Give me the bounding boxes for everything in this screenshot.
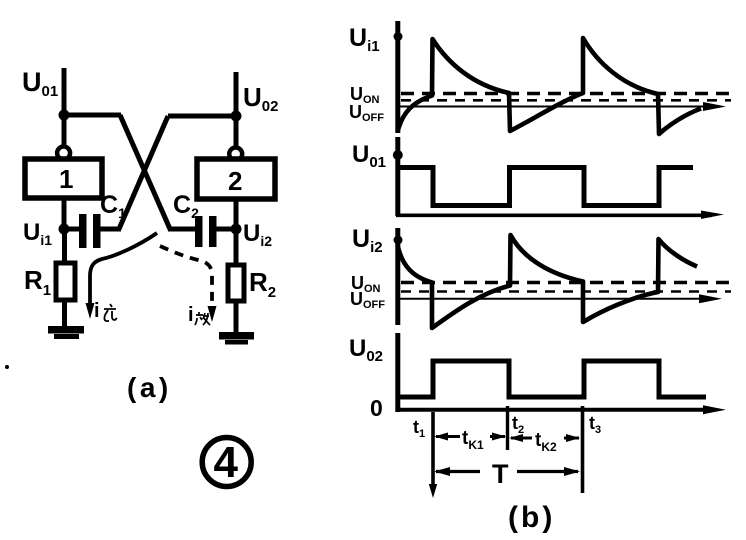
dimension tk2 label [535,430,557,454]
svg-text:R1: R1 [24,265,51,299]
resistor R1 [56,263,75,300]
panel Ui2 waveform [398,235,698,328]
discharging current dashed arrow i_fang [160,246,217,322]
svg-text:i: i [188,304,194,326]
panel Ui1 time axis [396,102,726,111]
wire diagonal end to C1 right plate [100,227,121,232]
panel Ui1 U_ON label [350,84,380,106]
node Ui1 junction [59,224,70,235]
svg-text:Ui2: Ui2 [352,225,383,256]
time marker t1 line with arrow [429,412,437,498]
panel Ui2 U_ON label [351,273,381,295]
panel Ui2 label [352,225,383,256]
ground 1 [48,326,84,339]
svg-text:(a): (a) [127,372,172,403]
node U01 label [22,67,58,100]
svg-text:U01: U01 [352,141,386,171]
wire Ui2 down to R2 [234,229,239,266]
panel Ui1 U_OFF dashed line [401,99,731,102]
wire gate2 output to Ui2 [234,199,239,231]
dimension T left arrow [434,467,480,476]
time marker t3 label [589,413,601,436]
panel Ui1 label [349,24,380,55]
svg-text:U02: U02 [243,82,278,115]
panel Ui1 U_OFF label [349,102,384,124]
wire cross diagonal from U02 to C1 [119,116,168,229]
svg-text:4: 4 [214,438,239,487]
capacitor C2 label [173,191,199,221]
panel Ui1 waveform [398,38,701,134]
time marker t2 label [512,413,524,436]
time marker t2 tick [506,406,509,450]
svg-text:t3: t3 [589,413,601,436]
wire R1 to ground [62,300,67,328]
charging current label [94,300,117,322]
svg-text:C1: C1 [100,191,126,221]
svg-text:t1: t1 [413,417,425,440]
svg-text:U01: U01 [22,67,58,100]
panel U01 time axis [396,211,724,220]
gate 2 inverter bubble [229,148,242,161]
wire U02 vertical [234,72,239,148]
svg-text:Ui1: Ui1 [349,24,380,55]
gate 2 box [197,159,275,199]
gate 1 inverter bubble [57,147,70,160]
svg-text:2: 2 [228,166,242,196]
resistor R2 [228,265,244,301]
dimension tk2 right arrow [564,434,580,442]
resistor R2 label [249,267,276,301]
panel U01 axis vertical [395,137,400,216]
ground 2 [219,332,254,345]
gate 2 label [228,166,242,196]
panel U02 time axis [396,405,726,414]
wire cross diagonal from U01 to C2 [120,115,170,229]
panel U02 square wave [397,361,706,397]
panel Ui2 U_OFF label [350,289,385,311]
caption (a) [127,372,172,403]
panel Ui2 U_ON dashed line [401,281,731,285]
panel Ui1 initial level dot [394,32,403,41]
svg-text:tK2: tK2 [535,430,557,454]
svg-text:tK1: tK1 [462,428,484,452]
node Ui1 label [23,219,52,248]
wire U01 vertical [62,68,67,147]
panel U01 label [352,141,386,171]
caption (b) [508,501,555,534]
wire U01 to cross [64,113,121,118]
svg-text:t2: t2 [512,413,524,436]
node Ui2 junction [231,224,242,235]
svg-text:Ui2: Ui2 [243,220,272,249]
node U01 junction [59,110,70,121]
time marker t1 label [413,417,425,440]
wire gate1 output to Ui1 [62,198,67,231]
dimension T label [492,459,509,489]
dimension tk1 label [462,428,484,452]
svg-text:(b): (b) [508,501,555,534]
node U02 junction [231,111,242,122]
figure number 4 circled [202,438,251,488]
time marker t3 line [581,406,585,493]
node U02 label [243,82,278,115]
capacitor C1 label [100,191,126,221]
capacitor C2 [195,216,217,247]
dimension tk1 right arrow [490,433,506,441]
dimension T right arrow [517,467,580,476]
wire Ui1 to C1 [64,227,80,232]
gate 1 label [59,164,73,194]
node Ui2 label [243,220,272,249]
svg-text:U02: U02 [349,335,383,365]
panel U01 square wave [397,168,693,206]
panel U02 origin label 0 [370,395,383,421]
panel Ui2 axis vertical [395,228,400,325]
svg-text:0: 0 [370,395,383,421]
panel U02 label [349,335,383,365]
panel Ui2 time axis [396,294,722,303]
panel Ui1 U_ON dashed line [401,92,731,96]
wire U02 to cross [168,114,236,119]
capacitor C1 [79,214,101,248]
wire diagonal end to C2 left plate [168,227,196,232]
svg-text:R2: R2 [249,267,276,301]
discharging current label [188,304,210,326]
svg-text:1: 1 [59,164,73,194]
svg-text:T: T [492,459,509,489]
dimension tk2 left arrow [509,434,532,442]
panel U01 level dot [393,150,403,160]
gate 1 box [25,159,102,198]
charging current arrow i_chong [86,233,158,319]
stray dot [5,365,9,369]
resistor R1 label [24,265,51,299]
wire R2 to ground [234,301,239,333]
wire C2 to Ui2 [216,227,236,232]
panel U02 axis vertical [395,333,400,412]
wire Ui1 down to R1 [62,229,67,264]
svg-text:Ui1: Ui1 [23,219,52,248]
panel Ui1 axis vertical [395,21,400,133]
dimension tk1 left arrow [434,433,460,441]
panel Ui2 U_OFF dashed line [401,290,731,293]
panel Ui2 initial level dot [394,236,403,245]
svg-text:i: i [94,300,100,322]
